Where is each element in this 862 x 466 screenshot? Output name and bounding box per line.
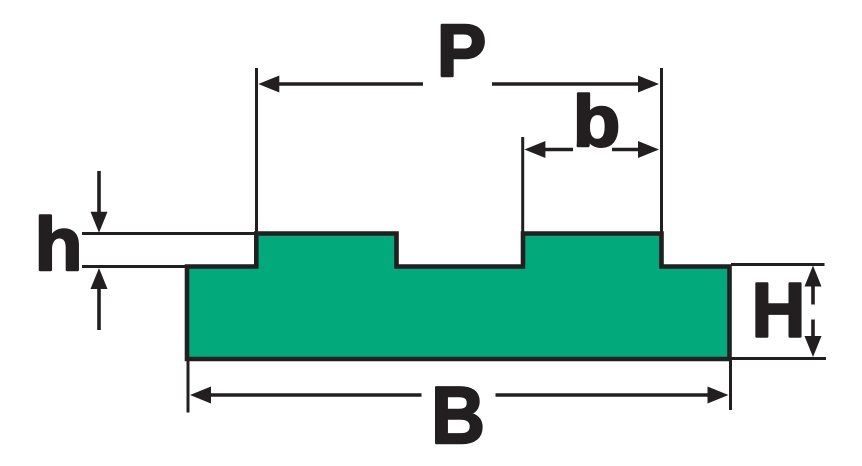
extension line b left (from right tooth left edge upward) (521, 137, 524, 232)
dimension line b left segment (544, 148, 573, 152)
arrowhead H down (805, 336, 822, 357)
svg-text:b: b (573, 81, 620, 162)
extension line h bottom (base top extended left) (82, 265, 188, 268)
dimension arrow h lower (pointing up) (97, 286, 101, 330)
arrowhead P right (638, 76, 659, 93)
svg-text:H: H (752, 267, 806, 353)
extension line P left (from left tooth left edge upward) (255, 68, 258, 232)
arrowhead B left (190, 387, 211, 404)
dimension line B right segment (496, 393, 711, 397)
extension line B right (below base right edge) (729, 360, 732, 410)
arrowhead b right (638, 141, 659, 158)
arrowhead H up (805, 266, 822, 287)
arrowhead h up (91, 268, 108, 289)
belt profile cross-section (green body with two teeth) (187, 234, 730, 360)
extension line h top (tooth top extended left) (82, 232, 258, 235)
extension line H top (base top extended right) (731, 263, 825, 266)
extension line P/b right (from right tooth right edge upward) (660, 68, 663, 232)
extension line B left (below base left edge) (187, 361, 190, 413)
dimension line P right segment (492, 82, 642, 86)
arrowhead P left (258, 76, 279, 93)
dimension line B left segment (209, 393, 422, 397)
arrowhead B right (708, 387, 729, 404)
dimension line b right segment (612, 148, 640, 152)
extension line H bottom (base bottom extended right) (731, 357, 826, 360)
arrowhead h down (91, 212, 108, 233)
dimension arrow H upper (pointing up) (811, 284, 815, 305)
dimension arrow h upper (pointing down) (97, 171, 101, 214)
arrowhead b left (524, 141, 545, 158)
svg-text:h: h (34, 203, 82, 287)
dimension arrow H lower (pointing down) (811, 320, 815, 341)
svg-text:B: B (431, 371, 485, 461)
dimension line P left segment (276, 82, 423, 86)
svg-text:P: P (437, 9, 486, 92)
